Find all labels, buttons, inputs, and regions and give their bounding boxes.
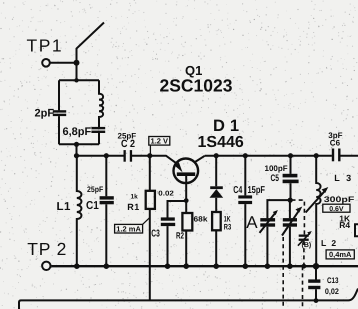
svg-text:D1: D1: [213, 117, 244, 135]
resistor R4 edge: [355, 224, 358, 236]
svg-text:C1: C1: [86, 200, 99, 212]
junction tank bottom: [74, 142, 79, 147]
inductor L3: [316, 156, 320, 209]
svg-text:100pF: 100pF: [265, 164, 288, 173]
capacitor C13: [308, 279, 320, 289]
wire D1 to R3: [215, 198, 217, 212]
wire trimmer2 top: [289, 200, 291, 218]
junction bus R2: [183, 263, 189, 269]
test point TP1 terminal: [42, 59, 50, 67]
svg-text:0,4mA: 0,4mA: [329, 250, 352, 259]
svg-text:0,02: 0,02: [325, 287, 339, 296]
wire node to tank top: [76, 63, 78, 80]
svg-text:C 2: C 2: [121, 138, 135, 150]
varactor B: [298, 231, 312, 246]
wire C1 upper: [105, 156, 107, 197]
diode D1: [210, 186, 224, 198]
label box 0.4mA: [326, 250, 354, 259]
wire C3 lower: [167, 226, 169, 266]
svg-text:1k: 1k: [131, 194, 139, 201]
resistor R1: [146, 191, 155, 209]
junction bus R3: [213, 263, 219, 269]
capacitor 6.8pF: [91, 127, 105, 133]
svg-text:A: A: [246, 213, 258, 232]
wire base to C3: [168, 201, 187, 218]
svg-text:0.02: 0.02: [158, 191, 174, 198]
junction rail left: [74, 153, 79, 158]
svg-text:25pF: 25pF: [87, 185, 103, 194]
wire C5 lower: [290, 183, 292, 200]
capacitor C2: [124, 150, 133, 162]
svg-text:1S446: 1S446: [198, 134, 244, 151]
svg-text:TP 2: TP 2: [27, 239, 67, 259]
wire tank left upper: [58, 80, 60, 110]
svg-text:R2: R2: [176, 231, 184, 241]
svg-text:R4: R4: [339, 220, 350, 230]
wire rail C2 to node: [132, 155, 150, 157]
svg-text:L1: L1: [57, 201, 72, 213]
transistor Q1 circle: [174, 159, 199, 184]
junction bus L3: [313, 263, 319, 269]
inductor L1: [77, 156, 82, 266]
wire 1.2mA leader: [142, 218, 149, 225]
wire C13 upper: [315, 266, 317, 279]
svg-text:R1: R1: [127, 202, 140, 212]
svg-text:C13: C13: [327, 276, 339, 285]
wire R1 upper: [149, 156, 151, 191]
capacitor C6: [332, 149, 341, 162]
wire D1 upper: [215, 156, 217, 187]
wire antenna: [77, 23, 105, 63]
junction tank top: [74, 78, 78, 82]
label box 1.2mA: [115, 224, 143, 233]
junction TP1 node: [74, 60, 80, 66]
svg-text:TP1: TP1: [27, 36, 64, 56]
label box 0.6V: [323, 204, 350, 213]
wire TP1 to node: [51, 62, 77, 64]
junction bus C3: [165, 263, 171, 269]
wire C4 upper: [244, 156, 246, 196]
junction bus C4: [243, 263, 249, 269]
svg-text:300pF: 300pF: [324, 195, 355, 204]
wire C13 lower: [315, 289, 317, 300]
wire tank left lower: [58, 116, 60, 144]
dashed wire to varactor B: [292, 200, 305, 235]
capacitor C4: [238, 195, 252, 204]
svg-text:15pF: 15pF: [248, 185, 266, 196]
junction trimmer node: [288, 198, 293, 203]
junction emitter node: [147, 153, 152, 158]
junction varactor B ground: [302, 264, 307, 269]
wire rail right of C6: [340, 155, 358, 157]
junction C5 top: [288, 153, 293, 158]
svg-text:1.2 mA: 1.2 mA: [116, 225, 141, 234]
svg-text:2pF: 2pF: [35, 108, 55, 120]
capacitor C3: [161, 217, 175, 226]
wire tank top: [59, 79, 99, 81]
resistor R3: [212, 212, 221, 230]
wire R3 lower: [215, 230, 217, 266]
junction C1 top: [104, 153, 109, 158]
capacitor C5: [283, 174, 299, 183]
wire tank to rail: [76, 144, 78, 155]
svg-text:L 2: L 2: [321, 238, 338, 248]
wire trimmer2 lower: [289, 227, 291, 267]
wire tank right lower: [98, 133, 100, 144]
variable capacitor trimmer 1: [260, 210, 278, 233]
capacitor C1: [100, 196, 114, 204]
wire R2 lower: [185, 231, 187, 267]
wire R1 lower: [149, 209, 151, 301]
transistor Q1 base bar: [177, 172, 195, 176]
arrow L3 slider: [306, 187, 329, 213]
transistor Q1 base lead: [185, 176, 187, 200]
transistor Q1 emitter arrow: [175, 162, 183, 172]
variable capacitor trimmer 2: [282, 207, 302, 236]
wire rail left: [77, 155, 124, 157]
dashed gang line trimmer2: [282, 237, 284, 309]
junction Q1 base node: [184, 198, 189, 203]
svg-text:L 3: L 3: [334, 173, 353, 183]
svg-text:1.2 V: 1.2 V: [151, 137, 169, 146]
wire tank bottom: [59, 143, 99, 145]
wire base to R2: [185, 201, 187, 213]
svg-text:R3: R3: [224, 222, 232, 231]
label box 1.2V: [149, 137, 170, 146]
junction bus L1: [74, 263, 80, 269]
svg-text:2SC1023: 2SC1023: [160, 76, 233, 96]
wire rail to Q1 emitter: [150, 156, 177, 164]
svg-text:C6: C6: [330, 138, 341, 147]
svg-text:6,8pF: 6,8pF: [63, 126, 92, 138]
junction C13 chassis: [314, 298, 319, 303]
svg-text:C5: C5: [271, 173, 280, 184]
transistor Q1 collector lead: [195, 156, 205, 162]
svg-text:C4: C4: [233, 185, 242, 196]
dashed gang line below bus: [302, 266, 304, 309]
wire trimmer top: [267, 200, 290, 218]
svg-text:0.6V: 0.6V: [329, 206, 344, 213]
wire trimmer1 lower: [266, 227, 268, 267]
chassis box outline: [19, 289, 358, 309]
wire C1 lower: [105, 204, 107, 266]
svg-text:C3: C3: [151, 229, 160, 240]
wire 1.2V leader: [149, 145, 151, 155]
wire C4 lower: [244, 204, 246, 266]
ground bus wire: [51, 265, 358, 267]
wire rail right: [205, 155, 332, 157]
junction bus trimmer2: [287, 263, 293, 269]
junction L3 top: [314, 153, 319, 158]
capacitor 2pF: [53, 110, 66, 116]
junction D1 top: [214, 153, 219, 158]
junction C4 top: [243, 153, 248, 158]
dashed varactor B lower: [303, 241, 305, 266]
wire C5 upper: [290, 156, 292, 174]
svg-text:68k: 68k: [194, 214, 209, 223]
wire L3 lower: [315, 209, 317, 266]
junction bus trimmer1: [265, 263, 271, 269]
svg-text:(B): (B): [302, 241, 312, 249]
resistor R2: [182, 213, 192, 231]
inductor tank coil: [99, 80, 103, 127]
junction bus C1: [104, 263, 110, 269]
test point TP2 terminal: [42, 262, 50, 270]
